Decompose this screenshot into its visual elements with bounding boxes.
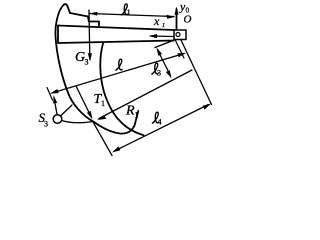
svg-text:1: 1: [101, 99, 105, 108]
svg-text:3: 3: [85, 58, 89, 67]
svg-text:1: 1: [127, 8, 131, 17]
svg-text:1: 1: [135, 111, 139, 120]
svg-text:3: 3: [157, 69, 161, 78]
svg-text:1: 1: [162, 23, 165, 29]
svg-text:3: 3: [44, 120, 48, 129]
svg-text:4: 4: [158, 118, 162, 127]
svg-text:x: x: [153, 14, 160, 28]
svg-text:R: R: [125, 104, 135, 119]
svg-text:O: O: [184, 14, 192, 26]
